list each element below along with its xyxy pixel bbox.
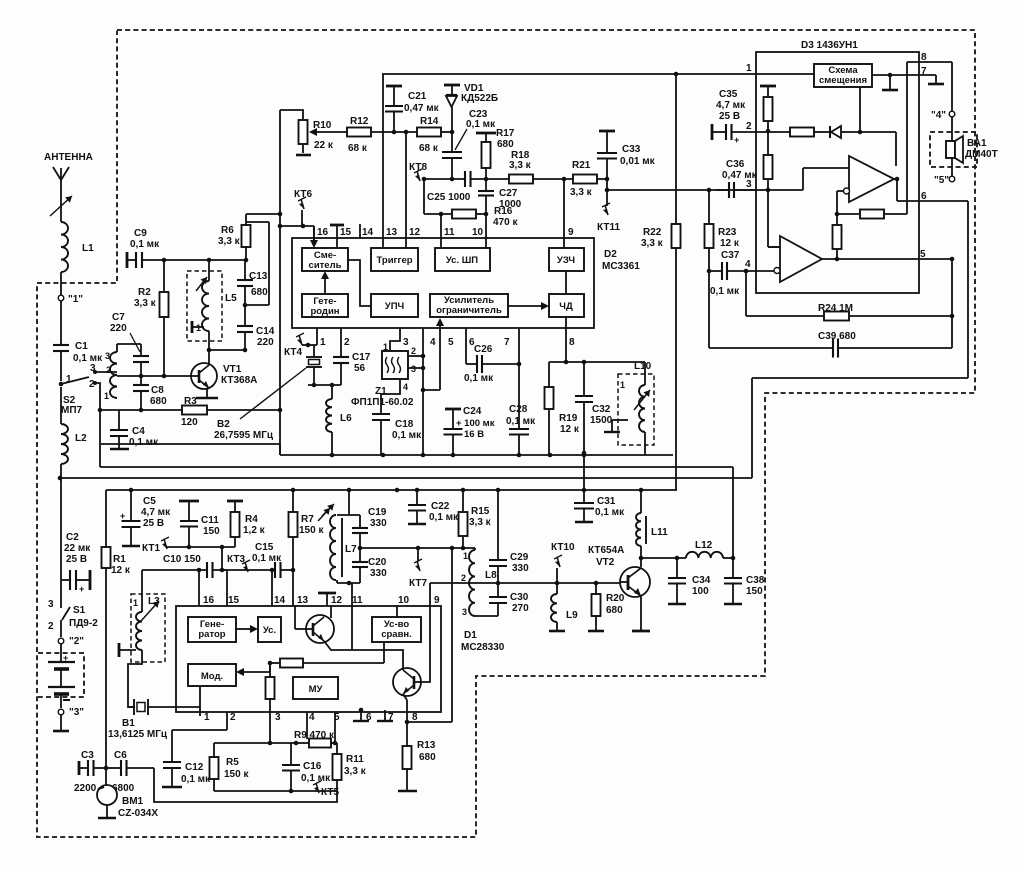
microphone ground — [98, 805, 116, 818]
D2 label — [602, 249, 640, 272]
resistor R16 — [452, 206, 518, 228]
wire R6 top to supply vertical — [246, 212, 282, 217]
capacitor C27 — [478, 179, 522, 214]
svg-text:S1: S1 — [73, 605, 86, 616]
wire UZCH to ChD — [565, 271, 567, 294]
capacitor C18 — [372, 414, 422, 455]
svg-text:КТ654А: КТ654А — [588, 545, 624, 556]
svg-text:В2: В2 — [217, 419, 230, 430]
svg-text:13: 13 — [297, 595, 309, 606]
resistor R9 — [294, 730, 337, 748]
svg-text:R4: R4 — [245, 514, 258, 525]
svg-text:КТ7: КТ7 — [409, 578, 427, 589]
D2 pin numbers top — [317, 227, 574, 238]
pin7 wire — [518, 328, 520, 429]
pin8 bus y362 — [549, 360, 645, 365]
capacitor C21 — [385, 86, 440, 132]
svg-text:R1: R1 — [113, 554, 126, 565]
IC D1 box — [176, 606, 441, 712]
capacitor C2 — [61, 532, 91, 594]
svg-text:C20: C20 — [368, 557, 387, 568]
pin4 wire down — [306, 712, 308, 739]
pin1 wire — [302, 328, 317, 345]
capacitor C29 — [489, 490, 529, 583]
svg-text:680: 680 — [497, 139, 514, 150]
L7 tank bottom — [337, 580, 360, 585]
pin13 internal — [295, 606, 306, 629]
wire mixer to IF amp — [348, 260, 371, 306]
svg-text:13,6125 МГц: 13,6125 МГц — [108, 729, 168, 740]
VT2 emitter ground — [632, 596, 650, 631]
svg-text:сравн.: сравн. — [381, 629, 412, 640]
wire L5 bottom — [209, 331, 247, 352]
arrow limiter to detector — [508, 302, 549, 310]
svg-text:MC3361: MC3361 — [602, 261, 640, 272]
svg-text:0,47 мк: 0,47 мк — [404, 103, 440, 114]
test point KT7 — [409, 548, 427, 589]
svg-text:0,1 мк: 0,1 мк — [464, 373, 494, 384]
test point KT4 — [284, 333, 310, 358]
svg-text:C12: C12 — [185, 762, 204, 773]
svg-text:смещения: смещения — [819, 75, 867, 86]
svg-text:7: 7 — [921, 66, 927, 77]
wire KT5 node — [313, 226, 315, 240]
wire L12 right — [723, 556, 735, 561]
svg-text:1500: 1500 — [590, 415, 613, 426]
op-amp A2 — [780, 236, 822, 282]
svg-text:VT1: VT1 — [223, 364, 242, 375]
pin6 feedback loop — [752, 201, 968, 478]
svg-text:14: 14 — [362, 227, 374, 238]
pin10 wire — [485, 214, 487, 248]
Z1 pin4 wire — [381, 379, 408, 414]
capacitor C9 — [130, 228, 160, 268]
svg-text:R15: R15 — [471, 506, 490, 517]
svg-text:10: 10 — [472, 227, 484, 238]
opamp A1 output — [894, 177, 899, 201]
resistor R12 — [347, 116, 371, 154]
MU block — [293, 677, 338, 699]
svg-text:26,7595 МГц: 26,7595 МГц — [214, 430, 274, 441]
svg-text:"3": "3" — [69, 707, 84, 718]
wire KT8 row y179 — [424, 177, 465, 182]
svg-text:0,1 мк: 0,1 мк — [506, 416, 536, 427]
svg-text:CZ-034X: CZ-034X — [118, 808, 158, 819]
svg-text:5: 5 — [448, 337, 454, 348]
D1 label — [461, 630, 505, 653]
svg-text:C32: C32 — [592, 404, 611, 415]
resistor R7 — [289, 490, 331, 570]
svg-text:0,1 мк: 0,1 мк — [595, 507, 625, 518]
crystal B1 — [108, 699, 200, 740]
resistor R24 — [746, 271, 954, 321]
svg-text:МУ: МУ — [309, 684, 323, 695]
terminal 4 — [931, 110, 955, 121]
svg-text:150: 150 — [746, 586, 763, 597]
test point KT11 — [597, 190, 620, 233]
svg-text:C13: C13 — [249, 271, 268, 282]
svg-text:C34: C34 — [692, 575, 711, 586]
VT1 emitter ground — [196, 388, 218, 398]
svg-text:L8: L8 — [485, 570, 497, 581]
svg-text:3,3 к: 3,3 к — [641, 238, 664, 249]
capacitor C30 — [489, 583, 529, 616]
svg-text:12 к: 12 к — [111, 565, 131, 576]
capacitor C11 — [179, 501, 220, 547]
svg-text:3: 3 — [746, 179, 752, 190]
L3 tap bar — [119, 643, 136, 657]
mixer block — [302, 248, 348, 271]
svg-text:C9: C9 — [134, 228, 147, 239]
ground below battery — [53, 715, 69, 731]
pin12 wire — [405, 132, 407, 248]
switch S1 — [48, 599, 98, 637]
inductor L5 — [192, 260, 237, 333]
feedback resistor r2h — [837, 210, 907, 219]
svg-text:C39 680: C39 680 — [818, 331, 856, 342]
svg-text:C4: C4 — [132, 426, 145, 437]
battery dashed box — [38, 653, 84, 697]
supply rail y490 — [106, 488, 677, 493]
svg-text:R21: R21 — [572, 160, 591, 171]
svg-text:25 В: 25 В — [66, 554, 87, 565]
svg-text:R22: R22 — [643, 227, 662, 238]
svg-text:КТ4: КТ4 — [284, 347, 302, 358]
speaker return vertical — [951, 259, 953, 348]
wire L8 tap row y583 — [430, 581, 620, 586]
svg-text:0,01 мк: 0,01 мк — [620, 156, 656, 167]
svg-text:C24: C24 — [463, 406, 482, 417]
pin8 node — [405, 720, 452, 725]
wire TX-RX y467 — [100, 466, 733, 468]
inductor L4 — [104, 351, 117, 401]
resistor R2 — [134, 260, 169, 376]
svg-text:ПД9-2: ПД9-2 — [69, 618, 98, 629]
svg-text:L9: L9 — [566, 610, 578, 621]
wire L2 to C2 and S1 — [58, 464, 63, 570]
pin12 internal — [318, 593, 336, 618]
svg-text:C6: C6 — [114, 750, 127, 761]
resistor R6 — [218, 214, 251, 260]
resistor R20 — [588, 583, 625, 631]
capacitor C6 — [104, 750, 154, 794]
svg-text:470 к: 470 к — [493, 217, 518, 228]
svg-text:ВА1: ВА1 — [967, 138, 987, 149]
svg-text:C1: C1 — [75, 341, 88, 352]
B2 label and callout — [214, 368, 306, 441]
svg-text:"4": "4" — [931, 110, 946, 121]
internal vertical x907 — [906, 62, 908, 214]
resistor R3 — [181, 396, 207, 428]
wire mic to KT5 node — [154, 768, 337, 802]
svg-text:0,1 мк: 0,1 мк — [466, 119, 496, 130]
svg-text:R9 470 к: R9 470 к — [294, 730, 335, 741]
capacitor C22 — [408, 490, 459, 524]
svg-text:C27: C27 — [499, 188, 518, 199]
switch S2 — [59, 363, 97, 416]
pin6 wire — [897, 191, 968, 202]
svg-text:L12: L12 — [695, 540, 713, 551]
svg-text:2: 2 — [89, 379, 95, 390]
svg-text:Триггер: Триггер — [376, 255, 412, 266]
svg-text:2: 2 — [461, 573, 466, 583]
svg-text:0,1 мк: 0,1 мк — [429, 512, 459, 523]
capacitor C23 — [442, 109, 496, 179]
wire C2 node to S1 — [60, 570, 62, 605]
svg-text:C30: C30 — [510, 592, 529, 603]
T2 collector wire — [352, 650, 403, 670]
svg-text:C33: C33 — [622, 144, 641, 155]
wire KT1 row y547 — [166, 545, 235, 550]
svg-text:+: + — [79, 584, 84, 594]
pin3 wire to opamp — [756, 168, 849, 190]
capacitor C38 — [724, 467, 765, 604]
svg-text:C17: C17 — [352, 352, 371, 363]
L7 tank top — [337, 490, 360, 515]
pin8 wire — [907, 52, 952, 63]
us block — [258, 617, 281, 642]
svg-text:22 мк: 22 мк — [64, 543, 91, 554]
wire VT1 base bus y376 — [117, 374, 191, 379]
battery GB1 — [48, 644, 75, 708]
svg-text:3: 3 — [275, 712, 281, 723]
svg-text:3: 3 — [48, 599, 54, 610]
resistor R13 — [398, 722, 436, 791]
wire pin3 row y190 — [607, 188, 756, 193]
pin6 ground — [353, 708, 369, 721]
svg-text:C22: C22 — [431, 501, 450, 512]
pin9 D1 wire from L8 row — [421, 583, 430, 682]
svg-text:ограничитель: ограничитель — [436, 305, 502, 316]
svg-text:2200: 2200 — [74, 783, 97, 794]
comparator block — [372, 617, 421, 642]
svg-text:C21: C21 — [408, 91, 427, 102]
capacitor C15 — [252, 542, 282, 578]
pin13 D1 wire — [292, 570, 294, 606]
svg-text:C35: C35 — [719, 89, 738, 100]
svg-text:3,3 к: 3,3 к — [509, 160, 532, 171]
svg-text:15: 15 — [340, 227, 352, 238]
microphone BM1 — [97, 768, 158, 819]
ground bus y455 — [101, 444, 673, 457]
svg-text:1: 1 — [104, 391, 109, 401]
svg-text:ВМ1: ВМ1 — [122, 796, 144, 807]
svg-text:3,3 к: 3,3 к — [134, 298, 157, 309]
svg-text:4,7 мк: 4,7 мк — [716, 100, 746, 111]
svg-text:25 В: 25 В — [719, 111, 740, 122]
svg-text:ситель: ситель — [309, 260, 342, 271]
wire C10 to C15 — [213, 568, 276, 573]
svg-text:1: 1 — [746, 63, 752, 74]
bias block stem — [859, 87, 861, 132]
test point KT10 — [551, 542, 575, 583]
svg-text:9: 9 — [568, 227, 574, 238]
svg-text:C19: C19 — [368, 507, 387, 518]
test point KT8 — [409, 162, 427, 181]
transistor VT2 — [588, 545, 650, 597]
KT8 net KT6 KT4 wires — [280, 224, 314, 229]
svg-text:МП7: МП7 — [61, 405, 83, 416]
arrow oscillator to mixer — [321, 271, 329, 294]
svg-text:330: 330 — [370, 568, 387, 579]
limiter block — [430, 294, 508, 317]
svg-text:"1": "1" — [68, 294, 83, 305]
trimmer capacitor C7 — [110, 312, 149, 376]
svg-text:8: 8 — [921, 52, 927, 63]
trigger block — [371, 248, 418, 271]
resistor R17 — [476, 128, 515, 179]
svg-text:680: 680 — [606, 605, 623, 616]
svg-text:C7: C7 — [112, 312, 125, 323]
pin13 wire — [382, 74, 384, 248]
svg-text:100: 100 — [692, 586, 709, 597]
wire C13/C14 tap to R6 — [246, 222, 269, 305]
inductor L6 — [326, 385, 352, 455]
svg-text:11: 11 — [352, 595, 363, 606]
supply wire y74 — [382, 72, 814, 77]
svg-text:4: 4 — [430, 337, 436, 348]
internal chain x768 — [760, 86, 780, 247]
svg-text:1,2 к: 1,2 к — [243, 525, 266, 536]
capacitor C33 — [597, 131, 656, 179]
capacitor C36 — [716, 159, 758, 198]
pin7 ground — [921, 66, 944, 84]
resistor R18 — [509, 150, 533, 184]
svg-text:L7: L7 — [345, 544, 357, 555]
svg-text:68 к: 68 к — [348, 143, 368, 154]
supply line R22 — [641, 74, 681, 490]
svg-text:Ус.: Ус. — [263, 625, 276, 636]
speaker BA1 dashed box — [930, 132, 977, 167]
inductor L2 — [61, 387, 87, 464]
svg-text:1: 1 — [463, 551, 468, 561]
pin4 wire to A2 — [746, 270, 774, 272]
transistor VT1 — [191, 363, 257, 389]
resistor R21 — [570, 160, 597, 198]
svg-text:C8: C8 — [151, 385, 164, 396]
svg-text:56: 56 — [354, 363, 366, 374]
pin3 wire down — [269, 712, 271, 743]
pin7 ground — [377, 710, 393, 721]
feedback resistor row — [268, 642, 384, 668]
svg-text:R5: R5 — [226, 757, 239, 768]
capacitor C12 — [162, 730, 211, 787]
svg-text:"5": "5" — [934, 175, 949, 186]
svg-text:0,1 мк: 0,1 мк — [73, 353, 103, 364]
svg-text:1: 1 — [204, 712, 210, 723]
diode VD1 — [444, 83, 498, 132]
internal resistor r pin3 — [266, 663, 275, 712]
capacitor C35 — [712, 89, 756, 145]
wire speaker return y478 — [60, 477, 752, 479]
arrow into modulator — [236, 663, 270, 676]
noise amp block — [435, 248, 490, 271]
svg-text:D1: D1 — [464, 630, 477, 641]
svg-text:+: + — [734, 135, 739, 145]
inductor L1 — [61, 222, 94, 272]
local oscillator block — [302, 294, 348, 317]
pin14 stub — [359, 224, 361, 238]
node 2 terminal — [58, 636, 84, 647]
ground g1 — [882, 75, 898, 90]
svg-text:2: 2 — [230, 712, 236, 723]
svg-text:4: 4 — [745, 259, 751, 270]
D2 pin numbers bottom — [320, 337, 575, 348]
T2 emitter pin8 — [403, 694, 407, 722]
svg-text:1: 1 — [196, 323, 201, 333]
svg-text:1: 1 — [66, 374, 72, 385]
svg-text:0,1 мк: 0,1 мк — [181, 774, 211, 785]
node C33 down — [605, 179, 610, 192]
svg-text:D3 1436УН1: D3 1436УН1 — [801, 40, 858, 51]
svg-text:+: + — [120, 511, 125, 521]
pin14 D1 wire — [270, 568, 275, 606]
svg-text:1: 1 — [320, 337, 326, 348]
inductor L3 dashed box — [131, 594, 165, 662]
resistor R19 — [545, 362, 580, 455]
inductor L8 — [461, 548, 497, 617]
svg-text:1: 1 — [620, 380, 625, 390]
speaker BA1 — [946, 117, 998, 176]
svg-text:8: 8 — [569, 337, 575, 348]
svg-text:2: 2 — [411, 346, 416, 356]
svg-text:В1: В1 — [122, 718, 135, 729]
svg-text:C11: C11 — [201, 515, 219, 526]
svg-text:3: 3 — [105, 351, 110, 361]
capacitor C31 — [574, 451, 625, 522]
svg-text:C3: C3 — [81, 750, 94, 761]
svg-text:ФП1П1-60.02: ФП1П1-60.02 — [351, 397, 414, 408]
svg-text:R16: R16 — [494, 206, 513, 217]
wire y558 to L12 — [641, 556, 686, 561]
svg-text:L6: L6 — [340, 413, 352, 424]
svg-text:3: 3 — [411, 364, 416, 374]
svg-text:3,3 к: 3,3 к — [570, 187, 593, 198]
svg-text:R2: R2 — [138, 287, 151, 298]
feedback resistor r3v — [833, 214, 842, 261]
capacitor C19 — [352, 507, 387, 548]
capacitor C14 — [237, 305, 275, 350]
svg-text:L1: L1 — [82, 243, 94, 254]
capacitor C32 — [575, 362, 613, 455]
svg-text:25 В: 25 В — [143, 518, 164, 529]
wire C1 to S2 — [60, 351, 62, 381]
wire C10 row y570 — [142, 568, 207, 573]
svg-text:КТ368А: КТ368А — [221, 375, 257, 386]
wire y410 emitter bias — [98, 408, 283, 413]
svg-text:R20: R20 — [606, 593, 625, 604]
wire S2-2 down — [95, 383, 100, 410]
svg-text:R7: R7 — [301, 514, 314, 525]
svg-text:C31: C31 — [597, 496, 616, 507]
svg-text:+ 100 мк: + 100 мк — [456, 418, 495, 429]
svg-text:R11: R11 — [346, 754, 364, 765]
bias block ground wire — [872, 73, 936, 78]
pin11 D1 wire — [351, 583, 353, 606]
antenna label — [44, 152, 93, 163]
wire R12 to R14 — [371, 130, 417, 135]
wire R16 row — [424, 179, 452, 248]
svg-text:1: 1 — [133, 598, 138, 608]
potentiometer R10 — [280, 110, 334, 155]
svg-text:+: + — [63, 653, 68, 663]
svg-text:6: 6 — [921, 191, 927, 202]
VT1 collector wire — [207, 348, 212, 365]
modulator block — [188, 664, 236, 686]
svg-text:14: 14 — [274, 595, 286, 606]
pin5 wire down — [334, 712, 336, 743]
L8 bottom wire — [475, 615, 498, 617]
